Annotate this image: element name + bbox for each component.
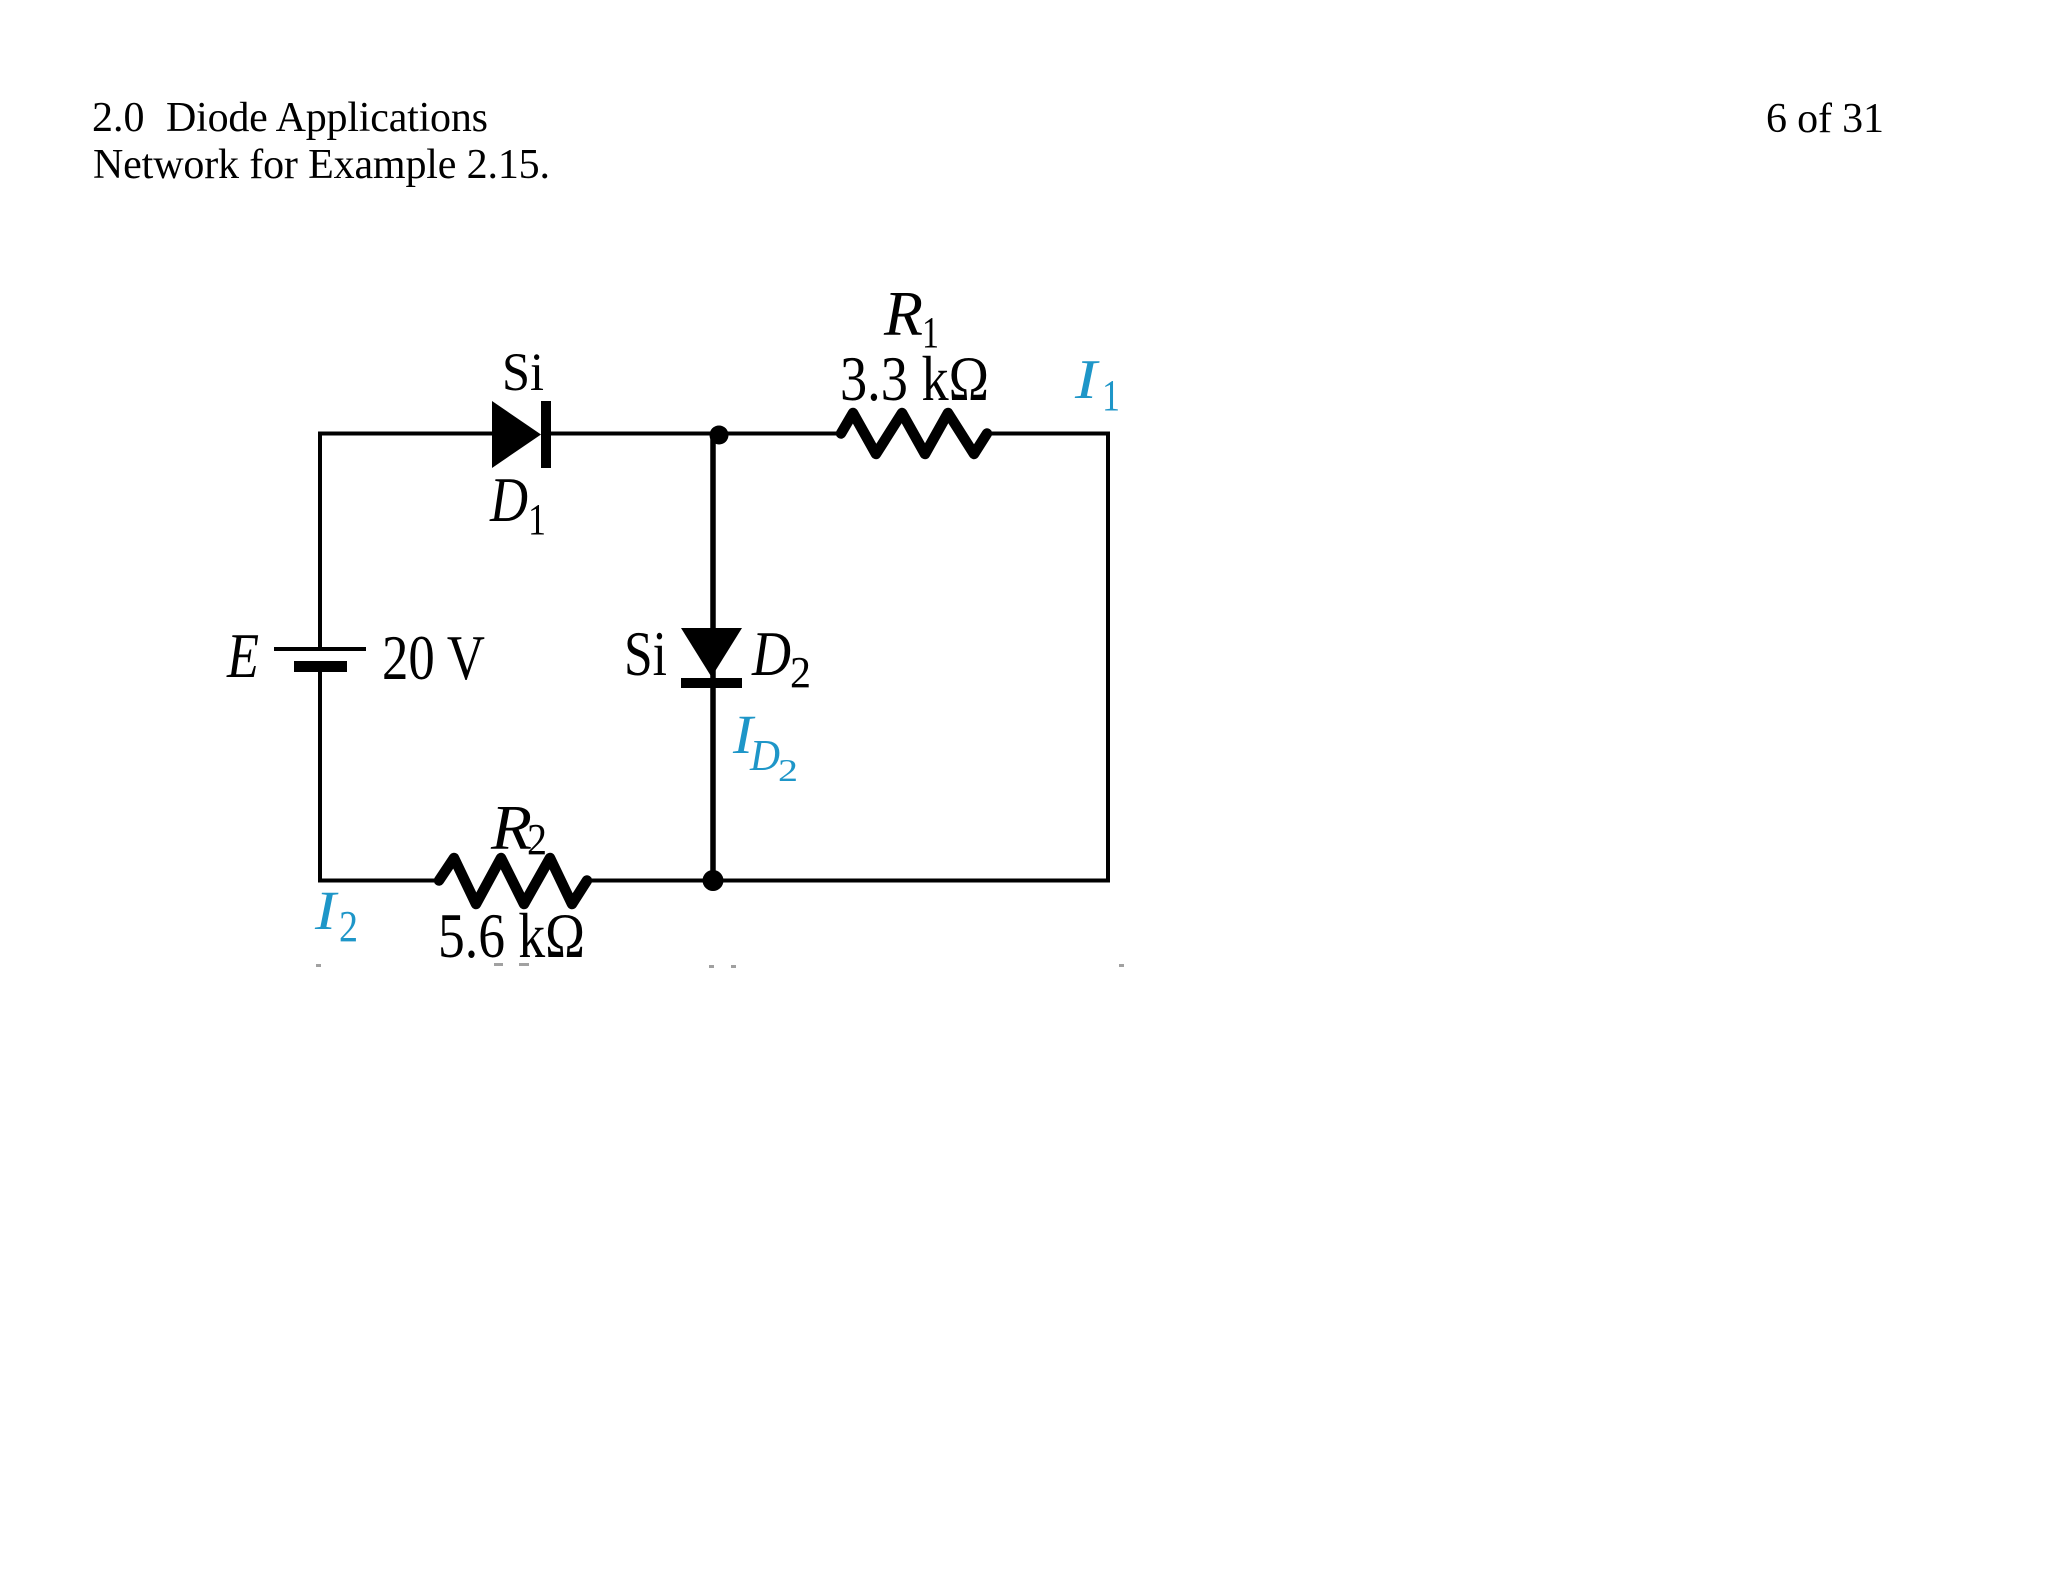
svg-text:1: 1 [1102,371,1120,420]
battery E [274,649,366,672]
svg-text:Si: Si [502,342,544,402]
node A (top junction dot) [710,426,729,445]
wire: R2 to bottom-left corner up to battery minus [320,672,436,881]
page title line 1 [92,95,488,141]
label D2 [751,619,811,697]
svg-text:20 V: 20 V [382,623,485,693]
wire: left branch top (battery + to top-left corner and to D1 anode) [320,434,492,650]
svg-text:D: D [751,619,791,689]
svg-text:1: 1 [528,495,546,544]
svg-text:2.0: 2.0 [92,95,145,141]
svg-text:2: 2 [339,902,358,951]
svg-text:Network for Example 2.15.: Network for Example 2.15. [93,142,550,188]
cropped caption remnant marks [316,963,1124,968]
resistor R1 [841,413,987,454]
diode D2 [681,628,742,688]
svg-text:D: D [489,465,528,535]
resistor R2 [439,858,587,904]
label R1 [883,279,939,357]
svg-text:6 of 31: 6 of 31 [1766,96,1884,142]
svg-text:2: 2 [778,752,798,788]
label ID2 (blue) [732,704,798,788]
label I1 (blue) [1074,349,1120,420]
label R2 [490,793,547,864]
wire: R1 to top-right corner, right branch, bottom-right to R2 [591,434,1108,881]
svg-text:E: E [226,621,259,691]
svg-text:Diode Applications: Diode Applications [166,95,488,141]
svg-text:R: R [490,793,532,863]
svg-text:2: 2 [527,815,547,864]
diode D1 [492,401,551,468]
svg-text:Si: Si [624,619,667,689]
svg-text:D: D [749,731,780,780]
svg-text:R: R [883,279,923,349]
svg-text:2: 2 [790,648,811,697]
svg-text:5.6 kΩ: 5.6 kΩ [438,901,585,971]
wire: middle branch (node A to node B) [710,434,716,881]
wire: D1 cathode to node A [551,432,838,436]
node B (bottom junction dot) [703,870,724,891]
svg-text:I: I [1074,349,1100,411]
label I2 (blue) [314,880,358,951]
svg-text:3.3 kΩ: 3.3 kΩ [840,344,989,414]
svg-text:I: I [314,880,339,941]
label D1 [489,465,546,544]
